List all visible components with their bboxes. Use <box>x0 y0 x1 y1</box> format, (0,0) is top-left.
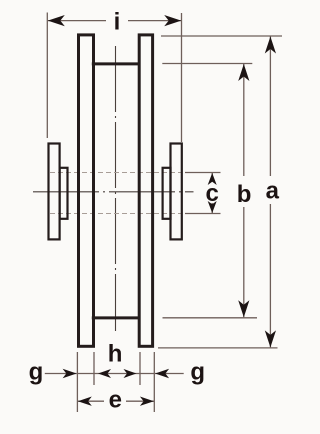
svg-text:i: i <box>114 8 121 35</box>
svg-text:c: c <box>206 180 219 207</box>
svg-text:a: a <box>266 178 280 205</box>
svg-text:e: e <box>109 387 122 414</box>
svg-text:g: g <box>190 359 205 386</box>
svg-text:g: g <box>29 359 44 386</box>
svg-text:b: b <box>237 181 252 208</box>
svg-text:h: h <box>108 341 123 368</box>
